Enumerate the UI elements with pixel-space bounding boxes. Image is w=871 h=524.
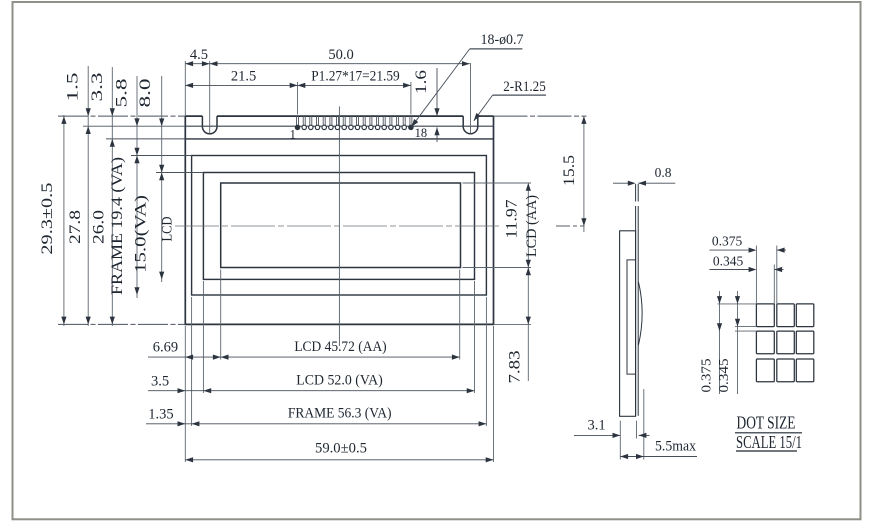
svg-text:LCD: LCD — [159, 216, 175, 241]
svg-text:1.5: 1.5 — [65, 73, 82, 102]
extension AA bottom right — [463, 267, 532, 269]
svg-text:0.375: 0.375 — [712, 234, 743, 249]
dim 4.5 / 50.0 line — [185, 63, 470, 65]
svg-text:18-ø0.7: 18-ø0.7 — [481, 32, 524, 48]
ext AA left below — [220, 270, 222, 360]
vertical center line — [338, 106, 340, 346]
svg-text:59.0±0.5: 59.0±0.5 — [315, 441, 367, 457]
dot dim 0.375 left — [719, 291, 721, 394]
side view glass (double line) — [635, 184, 637, 202]
ext module left below — [184, 326, 186, 462]
dim 0.8 top of side view — [613, 182, 629, 184]
dim 5.8/frame line — [136, 76, 138, 298]
svg-text:21.5: 21.5 — [231, 69, 256, 85]
svg-text:FRAME 56.3 (VA): FRAME 56.3 (VA) — [288, 406, 392, 422]
svg-text:5.5max: 5.5max — [655, 439, 697, 455]
dim row 59.0 — [185, 459, 493, 461]
right mounting notch — [463, 116, 478, 134]
extension line y=126.2 left — [83, 125, 185, 127]
dim 8.0/15.0 line — [161, 76, 163, 282]
svg-text:18: 18 — [415, 126, 428, 140]
dim row 1.35 / FRAME 56.3 (VA) — [146, 423, 486, 425]
svg-text:1.6: 1.6 — [413, 70, 430, 94]
LCD AA rectangle — [221, 183, 461, 268]
svg-text:FRAME 19.4 (VA): FRAME 19.4 (VA) — [109, 157, 126, 295]
ext frame right below — [485, 297, 487, 426]
ext VA left below — [202, 281, 204, 393]
svg-text:2-R1.25: 2-R1.25 — [503, 79, 546, 95]
dim 1.5/27.8 line — [87, 66, 89, 326]
bezel line upper — [185, 125, 493, 127]
svg-text:DOT SIZE: DOT SIZE — [737, 413, 796, 433]
ext frame left below — [191, 297, 193, 426]
dot dim 0.345 left — [737, 291, 739, 394]
extension line left notch center — [209, 61, 211, 134]
svg-text:29.3±0.5: 29.3±0.5 — [39, 183, 56, 255]
side view PCB outline — [620, 231, 636, 416]
svg-text:1: 1 — [290, 128, 296, 142]
extension module top right — [494, 115, 587, 117]
extension line frame top left — [131, 155, 192, 157]
dim row 3.5 / LCD 52.0 (VA) — [148, 390, 475, 392]
dim 5.5max — [620, 456, 697, 458]
svg-text:27.8: 27.8 — [67, 210, 84, 244]
svg-text:26.0: 26.0 — [90, 210, 107, 244]
svg-text:0.8: 0.8 — [655, 165, 672, 180]
ext module right below — [493, 326, 495, 462]
svg-text:LCD 52.0 (VA): LCD 52.0 (VA) — [296, 373, 383, 389]
svg-text:P1.27*17=21.59: P1.27*17=21.59 — [311, 69, 400, 85]
dim 1.6 vertical — [436, 68, 438, 116]
svg-text:0.375: 0.375 — [698, 358, 713, 392]
svg-text:0.345: 0.345 — [713, 254, 744, 269]
svg-text:3.1: 3.1 — [587, 418, 605, 434]
extension AA top right — [463, 182, 532, 184]
extension line module left above — [184, 61, 186, 116]
left mounting notch — [202, 116, 217, 134]
frame VA rectangle — [192, 156, 487, 296]
svg-text:SCALE 15/1: SCALE 15/1 — [736, 432, 802, 452]
bezel line lower — [185, 138, 493, 140]
svg-text:6.69: 6.69 — [153, 340, 178, 356]
svg-text:15.0(VA): 15.0(VA) — [132, 195, 149, 273]
dot dim vertical extensions — [755, 246, 757, 304]
dim 21.5 / P1.27 line — [185, 84, 411, 86]
svg-text:3.3: 3.3 — [89, 73, 106, 102]
svg-text:15.5: 15.5 — [561, 155, 578, 186]
svg-text:7.83: 7.83 — [507, 351, 524, 384]
svg-text:LCD (AA): LCD (AA) — [524, 195, 540, 257]
svg-text:LCD 45.72 (AA): LCD 45.72 (AA) — [294, 339, 386, 355]
extension line VA top left — [156, 172, 203, 174]
extension line module bottom left — [58, 323, 185, 325]
side view curved spring — [638, 282, 642, 345]
dim 29.3 line — [63, 115, 65, 326]
svg-text:5.8: 5.8 — [114, 79, 131, 108]
side view bottom ext lines — [619, 421, 621, 460]
ext VA right below — [474, 281, 476, 393]
LCD VA rectangle — [203, 173, 474, 280]
side view inner rect — [627, 260, 636, 374]
svg-text:1.35: 1.35 — [148, 407, 173, 423]
dim row 6.69 / LCD 45.72 (AA) — [148, 356, 460, 358]
svg-text:0.345: 0.345 — [716, 358, 731, 392]
module outline (front view) — [185, 116, 493, 324]
extension line pin18 — [410, 82, 412, 115]
extension line module top left — [58, 115, 185, 117]
extension module bottom right — [494, 323, 532, 325]
ext AA right below — [459, 270, 461, 360]
pin header row (18 pins) — [297, 116, 412, 125]
svg-text:4.5: 4.5 — [190, 47, 208, 63]
dim 11.97 line — [527, 183, 529, 381]
svg-text:11.97: 11.97 — [504, 200, 521, 239]
svg-text:8.0: 8.0 — [137, 79, 154, 108]
dim 3.1 — [574, 434, 620, 436]
dot dim horizontal extensions — [718, 303, 757, 305]
extension line pin1 — [297, 82, 299, 115]
horizontal center line — [175, 225, 501, 227]
dim 3.3/26.0 line — [111, 67, 113, 326]
extension line y=138.9 left — [106, 138, 185, 140]
svg-text:3.5: 3.5 — [151, 374, 169, 390]
svg-text:50.0: 50.0 — [328, 47, 353, 63]
dot matrix 3x3 grid — [756, 304, 774, 327]
extension line right notch center — [470, 63, 472, 134]
dim 15.5 line — [583, 116, 585, 232]
